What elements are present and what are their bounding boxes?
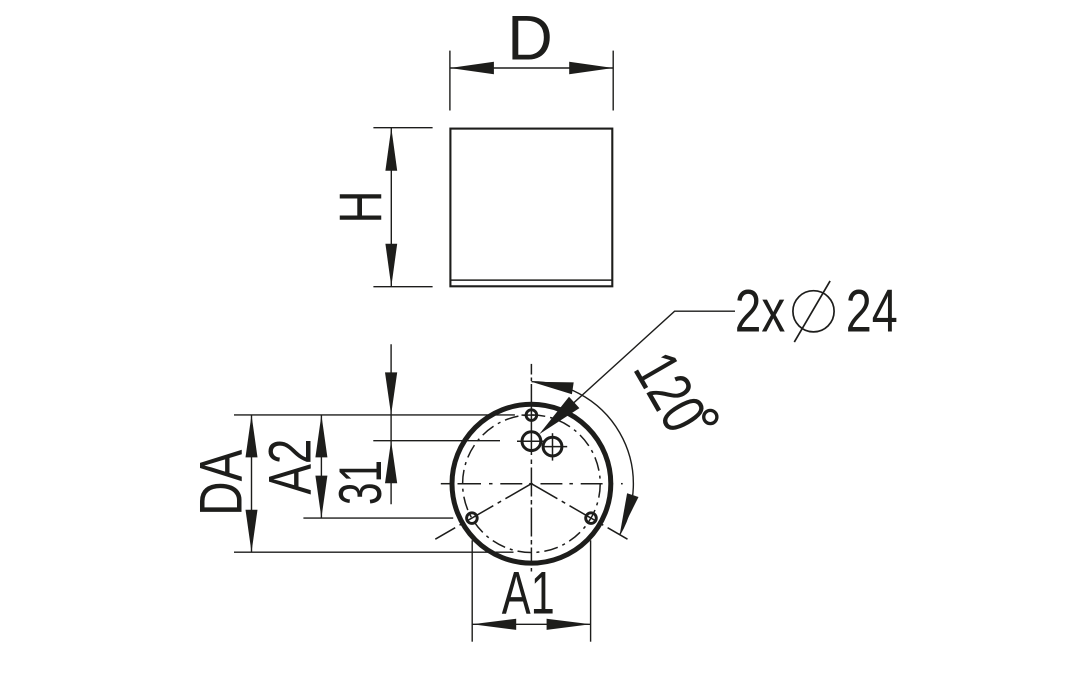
A1 dimension line xyxy=(472,623,590,625)
cable entry hole right (2x d24) xyxy=(543,437,562,456)
D extension line left xyxy=(449,51,451,111)
bottom-left screw hole xyxy=(467,513,478,524)
svg-text:2x: 2x xyxy=(735,278,786,345)
120 deg arc xyxy=(531,382,633,535)
luminaire body side view xyxy=(450,129,612,287)
top screw hole xyxy=(526,410,537,421)
svg-text:24: 24 xyxy=(846,278,898,345)
bottom rim line xyxy=(451,279,613,281)
svg-text:A2: A2 xyxy=(256,439,323,495)
H extension line top xyxy=(373,127,432,129)
A2 bottom extension line (through lower holes) xyxy=(303,517,453,519)
D arrow right xyxy=(569,62,613,74)
horizontal centerline xyxy=(441,483,623,485)
A2 dimension line xyxy=(320,415,322,518)
H dimension line xyxy=(390,128,392,287)
31 bottom extension line (through cable hole center) xyxy=(373,440,500,442)
arc arrow top xyxy=(531,382,573,395)
DA bottom extension line xyxy=(234,551,514,553)
bottom-right screw hole xyxy=(586,513,597,524)
31 arrow up (below) xyxy=(385,441,397,484)
H extension line bottom xyxy=(373,286,432,288)
crosshair on right cable hole xyxy=(544,446,567,448)
svg-text:31: 31 xyxy=(327,460,394,505)
vertical centerline xyxy=(530,364,532,572)
crosshair on left cable hole xyxy=(517,440,544,442)
top extension line (through top hole center) xyxy=(234,414,515,416)
radial centerline down-right xyxy=(531,484,627,540)
D extension line right xyxy=(612,51,614,111)
svg-text:DA: DA xyxy=(188,450,255,516)
A1 arrow left xyxy=(472,619,516,630)
A1 extension line left xyxy=(471,540,473,641)
degree symbol xyxy=(704,410,717,423)
DA arrow down xyxy=(246,510,258,553)
DA arrow up xyxy=(246,415,258,458)
A2 arrow up xyxy=(315,415,327,458)
svg-text:120: 120 xyxy=(620,341,719,443)
D arrow left xyxy=(450,62,494,74)
H arrow up xyxy=(385,128,397,171)
bolt circle (dash-dot) xyxy=(463,415,601,553)
cable entry hole left (2x d24) xyxy=(522,432,541,451)
diameter symbol xyxy=(793,291,834,332)
A1 extension line right xyxy=(590,540,592,641)
A1 arrow right xyxy=(547,619,591,630)
arc arrow bottom xyxy=(620,493,639,535)
svg-text:A1: A1 xyxy=(502,560,555,627)
svg-text:D: D xyxy=(507,3,553,73)
outer circle bottom view xyxy=(452,404,611,563)
radial centerline down-left xyxy=(435,484,531,540)
31 arrow down (above) xyxy=(385,372,397,415)
A2 arrow down xyxy=(315,476,327,518)
31 dimension line xyxy=(390,344,392,504)
leader line xyxy=(543,311,736,431)
H arrow down xyxy=(385,244,397,287)
svg-text:H: H xyxy=(327,191,394,224)
DA dimension line xyxy=(251,415,253,552)
D dimension line xyxy=(450,67,613,69)
leader arrowhead xyxy=(539,397,579,435)
top screw hole crosshair xyxy=(522,414,535,416)
